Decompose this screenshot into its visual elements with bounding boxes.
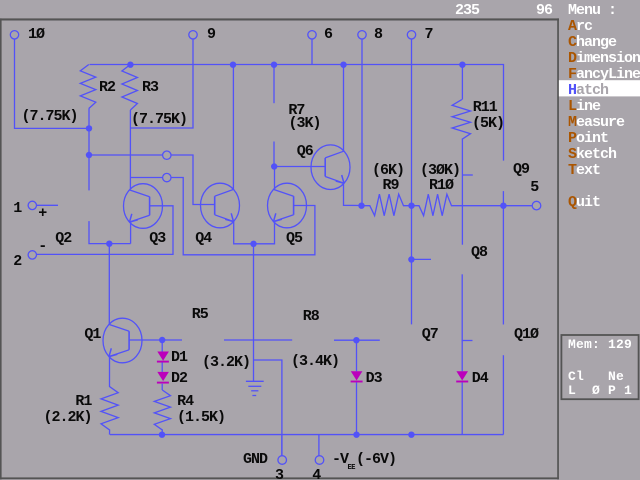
wire pin 8 down to R9 left node [361,39,363,206]
diode D1 [157,352,169,361]
wire Q9 emitter down to output node and Q10 [502,191,504,324]
wire pin 7 down to Q7 [411,39,413,324]
label D4 [472,371,488,387]
wire R2 bottom lead [88,109,90,191]
pin number 2 label [13,254,21,270]
pin 3 terminal [278,456,287,465]
open circle on wire y155 [163,151,171,159]
transistor Q4 [201,183,240,228]
wire pin 6 to top rail [311,39,313,65]
wire pin 1 stub [37,204,58,206]
wire pin 2 to Q3 base [37,206,173,255]
pin 5 terminal [532,201,541,210]
resistor R7 upper lead [273,65,275,104]
label -VEE net [332,452,348,468]
label Q10 [514,327,538,343]
node dot Q4 collector rail [230,61,236,67]
label R7 [288,103,304,119]
wire pin 4 [318,435,320,456]
wire Q10 emitter down to bottom rail [502,355,504,434]
wire Q6 emitter down to R9 node [344,182,362,206]
label Q3 [149,231,165,247]
node dot R4 rail [159,432,165,438]
label D1 [171,350,187,366]
resistor R7 lower lead [273,142,275,167]
transistor Q5 [268,183,307,228]
wire Q1 collector [108,244,110,325]
value label R3 7.75K [131,112,187,128]
pin 7 terminal [407,31,415,39]
wire D1-D2 [161,363,163,372]
node dot D1 anode [159,337,165,343]
node dot R7 bottom / Q6 base / Q5 collector [271,163,277,169]
value label R2 7.75K [22,109,78,125]
diode D4 [456,371,468,380]
value label R4 1.5K [177,410,225,426]
label R3 [142,80,158,96]
label Q4 [195,231,211,247]
wire D3 bottom lead to rail [356,383,358,435]
wire pin 3 lower [281,435,283,456]
pin number 9 label [207,27,215,43]
stub on pin7 wire [411,258,431,260]
pin 10 terminal [10,31,18,39]
pin number 5 label [530,180,538,196]
value label R11 5K [472,116,504,132]
node dot R11 top rail [459,61,465,67]
label D3 [366,371,382,387]
node dot R9-R10 junction pin 7 [408,203,414,209]
wire pin 3 branch [254,360,282,456]
top separator line [0,18,559,20]
wire R11 bottom lead to Q8 [461,139,463,244]
wire pin 5 horizontal [462,205,532,207]
V+ top rail [90,65,504,161]
diode D2 [157,372,169,381]
node dot ground branch [250,241,256,247]
node dot Q6 collector rail [340,61,346,67]
node dot R3 top rail [127,61,133,67]
node dot R2-pin10 junction [86,125,92,131]
resistor R11 [452,100,470,140]
resistor R10 [412,194,463,216]
drawing area right border [557,18,559,479]
wire Q5 collector [274,167,276,190]
label R11 [473,100,497,116]
wire Q1 base to R5 [129,339,182,341]
drawing area left border [0,18,2,479]
label R1 [75,394,91,410]
value label R10 30K [420,163,460,179]
wire D1 top lead [161,340,163,352]
node dot stub pin7 [408,256,414,262]
label Q7 [422,327,438,343]
wire Q6 base [274,166,324,168]
wire R3 node to Q5 base detour [130,178,315,255]
value label -6V [356,452,396,468]
pin number 1 label [13,201,21,217]
resistor R11 upper lead [461,65,463,100]
wire Q8 to D4 [461,274,463,371]
wire Q3 emitter lead [130,222,132,244]
label R8 [303,309,319,325]
resistor R1 [101,363,118,435]
label Q2 [55,231,71,247]
node dot D3 anode [353,337,359,343]
memory status box border [561,335,638,399]
wire R3 bottom lead to Q3 collector [129,110,131,189]
value label R5 3.2K [202,355,250,371]
pin 1 terminal [28,201,36,209]
wire D2 to R4 [161,384,163,390]
wire Q1 emitter upper [109,357,111,364]
resistor R2 [80,65,96,109]
pin number 10 label [28,27,44,43]
label -VEE subscript mark [348,464,356,472]
node dot Q1 collector junction [106,241,112,247]
label Q6 [297,144,313,160]
tick stub near D4 top [462,340,473,342]
wire ground vertical [253,244,255,381]
label Q5 [286,231,302,247]
value label R9 6K [372,163,404,179]
label Q8 [471,245,487,261]
node dot pin7 chain rail [408,432,414,438]
ground symbol [246,380,264,382]
plus input marker [38,206,46,222]
minus input marker [38,239,46,255]
resistor R5 left segment [224,339,292,341]
pin 8 terminal [358,31,366,39]
pin number 6 label [324,27,332,43]
transistor Q1 [103,318,142,363]
bottom rail [110,434,503,436]
wire R2 bottom to Q4 base via node [89,155,215,205]
label R4 [177,394,193,410]
wire pin 9 down-left to R3 lead [130,39,193,128]
diode D3 [351,371,363,380]
wire Q4 collector [232,65,234,190]
label R9 [383,178,399,194]
label R10 [429,178,453,194]
resistor R9 [362,194,412,216]
value label R8 3.4K [291,354,339,370]
label Q9 [513,162,529,178]
tick stub near R11 lead [462,174,472,176]
value label R7 3K [289,116,321,132]
node dot R7 top rail [271,61,277,67]
node dot D3 rail [353,432,359,438]
node dot R9 left / pin 8 [358,203,364,209]
label R5 [192,307,208,323]
wire D3 top lead [356,340,358,371]
label R2 [99,80,115,96]
wire Q2 emitter to Q3 emitter rail [89,221,131,244]
pin 6 terminal [308,31,316,39]
wire pin 10 to R2 bottom node [15,39,90,128]
pin 9 terminal [189,31,197,39]
menu highlight bar for Hatch [559,80,640,96]
pin number 8 label [374,27,382,43]
wire D4 bottom lead to rail [461,383,463,435]
node dot output node pin5 [500,203,506,209]
value label R1 2.2K [44,410,92,426]
label D2 [171,371,187,387]
wire Q4 Q5 emitters to ground node [234,222,275,244]
open circle on wire y177 [163,173,171,181]
pin number 4 label [312,468,320,480]
pin 4 terminal [315,456,324,465]
label GND net [243,452,267,468]
resistor R4 [154,390,170,435]
resistor R3 [122,65,137,111]
transistor Q6 [311,145,350,190]
pin 2 terminal [28,251,36,259]
pin number 3 label [275,468,283,480]
transistor Q3 [124,184,163,229]
wire Q6 collector from top rail [343,65,345,152]
pin number 7 label [425,27,433,43]
node dot R2 lead y155 [86,152,92,158]
resistor R8 right segment [334,339,380,341]
label Q1 [84,327,100,343]
drawing area bottom border [0,477,559,479]
